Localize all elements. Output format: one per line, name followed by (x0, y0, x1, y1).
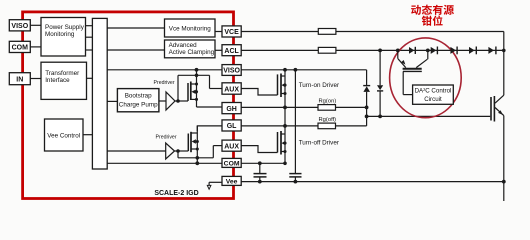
wire VCE to collector (top rail) (241, 32, 504, 96)
capacitor C2 (289, 70, 301, 182)
svg-text:Vce Monitoring: Vce Monitoring (169, 25, 211, 32)
svg-text:Circuit: Circuit (424, 96, 442, 103)
svg-text:Rg(on): Rg(on) (319, 99, 337, 105)
transistor Q1 (upper internal MOSFET) (175, 70, 210, 107)
wire IN pin to Transformer Interface (30, 78, 42, 80)
wire GL output (197, 126, 222, 131)
wire Vce Monitoring to VCE pin (215, 31, 222, 33)
diode D3 (in clamp chain) (409, 47, 415, 54)
wire Vee Control to bus (83, 134, 92, 136)
transistor Q4 (booster turn-off MOSFET) (278, 126, 287, 163)
wire bus to Advanced Active Clamping (107, 49, 164, 51)
block Bootstrap Charge Pump (107, 89, 159, 112)
svg-text:Monitoring: Monitoring (45, 31, 75, 38)
node ACL/diode2 (378, 49, 382, 53)
svg-text:AUX: AUX (224, 86, 239, 93)
svg-text:COM: COM (12, 45, 29, 52)
wire PSM to bus (stub 3) (86, 49, 93, 51)
wire PSM to bus (stub 1) (86, 25, 93, 27)
block Vce Monitoring (165, 19, 216, 37)
node COM/cap1 (258, 161, 262, 165)
diode D5 (chain) (450, 47, 457, 55)
op-amp predriver 1 (triangle) (159, 92, 175, 110)
wire VISO rail (bus to VISO pin) (107, 69, 222, 71)
node cap2/bus (294, 180, 298, 184)
svg-text:SCALE-2 IGD: SCALE-2 IGD (154, 190, 198, 197)
svg-text:Predriver: Predriver (154, 80, 175, 86)
red circle (dynamic active clamp highlight) (390, 38, 462, 118)
svg-text:Interface: Interface (45, 77, 70, 84)
op-amp predriver 2 (triangle) (107, 143, 174, 159)
svg-text:Active Clamping: Active Clamping (169, 49, 215, 56)
diode D4 (chain) (431, 47, 438, 55)
node gate wire corner (365, 115, 369, 119)
pin Vee (222, 176, 241, 185)
node D2/gate wire (378, 115, 382, 119)
resistor Rg(on) (318, 105, 336, 111)
wire Transformer Interface to bus (87, 77, 93, 79)
svg-text:Rg(off): Rg(off) (319, 117, 337, 123)
wire clamp chain rail (336, 49, 504, 51)
node on VISO rail (195, 68, 199, 72)
svg-text:IN: IN (16, 76, 23, 83)
wire COM pin to Power Supply Monitoring (30, 46, 42, 48)
transistor Q5 (active clamp IGBT) (396, 49, 430, 95)
svg-text:Vee: Vee (226, 179, 238, 186)
block Advanced Active Clamping (165, 40, 216, 58)
wire Vee bottom bus (241, 181, 504, 183)
pin ACL (222, 45, 241, 56)
wire AUX to Q3 gate (241, 89, 277, 96)
transistor Q6 (main IGBT) (491, 95, 504, 181)
transistor Q2 (lower internal MOSFET) (175, 126, 214, 163)
svg-text:GH: GH (226, 106, 237, 113)
diode D1 (bootstrap, pointing up) (363, 86, 370, 126)
block Vee Control (45, 119, 84, 151)
pin VISO (left) (9, 20, 30, 31)
svg-text:DA²C Control: DA²C Control (415, 87, 452, 94)
svg-text:Predriver: Predriver (156, 134, 177, 140)
wire VISO external rail (241, 70, 366, 86)
pin COM (right) (222, 158, 241, 167)
svg-text:AUX: AUX (224, 143, 239, 150)
node VISO/booster drain (283, 68, 287, 72)
node chain to collector (502, 49, 506, 53)
bus (vertical logic backbone) (92, 18, 107, 169)
node COM/booster source (283, 162, 287, 166)
wire COM external (241, 162, 285, 164)
resistor R2 (ACL) (318, 47, 336, 53)
diode D2 (clamp feed, pointing down) (377, 50, 383, 116)
wire ACL to clamp chain (241, 49, 318, 51)
node Rg(on)/D1 (365, 106, 369, 110)
pin VISO (right) (222, 65, 241, 76)
wire AUX tap (lower) (213, 146, 222, 158)
svg-text:ACL: ACL (224, 48, 239, 55)
wire Rg(on) to gate node (336, 106, 367, 108)
node GH/booster midpoint (283, 106, 287, 110)
pin GL (222, 120, 241, 131)
pin COM (left) (9, 41, 30, 52)
svg-text:Bootstrap: Bootstrap (125, 93, 152, 100)
diode D7 (chain) (488, 47, 496, 55)
resistor R1 (VCE sense) (318, 29, 336, 35)
node emitter/bus (502, 180, 506, 184)
node VISO/cap2 (294, 68, 298, 72)
capacitor C1 (254, 163, 267, 181)
node cap1/bus (258, 180, 262, 184)
resistor Rg(off) (318, 123, 336, 129)
svg-text:Vee Control: Vee Control (47, 132, 80, 139)
svg-text:Turn-off Driver: Turn-off Driver (299, 139, 339, 146)
svg-text:COM: COM (224, 161, 240, 168)
wire emitter stub below bus (503, 182, 505, 201)
svg-text:Charge Pump: Charge Pump (119, 102, 158, 109)
pin AUX (upper) (222, 83, 241, 94)
module border SCALE-2 IGD (red) (23, 12, 234, 199)
block Transformer Interface (41, 62, 87, 99)
wire GL to Rg(off) (241, 125, 318, 127)
pin AUX (lower) (222, 140, 241, 151)
svg-text:Turn-on Driver: Turn-on Driver (299, 82, 339, 89)
wire VISO pin to Power Supply Monitoring (30, 24, 42, 26)
wire PSM to bus (stub 2) (86, 36, 93, 38)
svg-text:GL: GL (227, 123, 237, 130)
node COM rail / Q2 source (195, 161, 199, 165)
svg-text:VISO: VISO (223, 68, 240, 75)
pin GH (222, 103, 241, 114)
wire Advanced Active Clamping to ACL pin (215, 49, 222, 51)
node GL/booster (283, 124, 287, 128)
wire COM rail (bus to COM pin) (107, 162, 222, 164)
svg-text:Advanced: Advanced (169, 42, 198, 49)
svg-text:VCE: VCE (224, 29, 239, 36)
wire booster rail GH-GL (284, 107, 286, 126)
wire GH to Rg(on) (241, 106, 318, 108)
wire bus to Vce Monitoring (107, 27, 164, 29)
diode D6 (chain) (469, 47, 476, 55)
wire Rg(off) to gate node (336, 125, 367, 127)
svg-text:VISO: VISO (11, 23, 28, 30)
wire GH output (197, 106, 223, 108)
ground arrow (Vee reference) (207, 182, 222, 189)
block Power Supply Monitoring (41, 18, 86, 57)
block DA2C Control Circuit (413, 85, 454, 104)
transistor Q3 (booster turn-on MOSFET) (278, 70, 287, 108)
pin VCE (222, 26, 241, 37)
wire AUX to Q4 gate (241, 146, 277, 153)
label 动态有源钳位 (red, drawn as paths) (411, 5, 454, 26)
wire AUX tap (upper) (210, 75, 223, 88)
pin IN (left) (9, 73, 30, 85)
wire gate node to IGBT gate (367, 115, 491, 117)
